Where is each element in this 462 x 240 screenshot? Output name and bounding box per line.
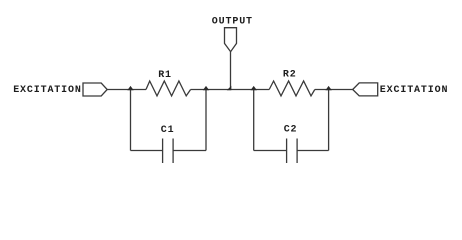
capacitor C2 left plate xyxy=(286,139,288,164)
junction node A xyxy=(127,86,133,90)
wire: node A down (C1 left lead) xyxy=(130,90,132,151)
wire: C1 bottom left horizontal xyxy=(131,150,163,152)
resistor R1 xyxy=(146,81,191,96)
wire: C2 bottom left horizontal xyxy=(254,150,287,152)
svg-text:EXCITATION: EXCITATION xyxy=(380,85,449,96)
junction node B xyxy=(203,86,209,90)
junction node D xyxy=(325,86,331,90)
svg-text:EXCITATION: EXCITATION xyxy=(13,85,82,96)
capacitor C1 right plate xyxy=(172,139,174,164)
port OUTPUT connector symbol xyxy=(225,28,237,52)
wire: C1 bottom right horizontal xyxy=(173,150,206,152)
junction node C xyxy=(251,86,257,90)
svg-text:C1: C1 xyxy=(161,125,175,136)
port EXCITATION right connector symbol xyxy=(353,83,378,96)
resistor R2 xyxy=(269,81,315,96)
wire: R2 right to right port xyxy=(315,89,353,91)
wire: node C down (C2 left lead) xyxy=(253,90,255,151)
wire: C2 bottom right horizontal xyxy=(297,150,329,152)
capacitor C1 left plate xyxy=(162,139,164,164)
wire: left port to node A xyxy=(107,89,146,91)
svg-text:R1: R1 xyxy=(158,70,172,81)
capacitor C2 right plate xyxy=(296,139,298,164)
svg-text:OUTPUT: OUTPUT xyxy=(212,16,253,27)
wire: C1 right lead up to node B xyxy=(205,90,207,151)
port EXCITATION left connector symbol xyxy=(83,83,107,96)
junction node OUT xyxy=(227,86,232,91)
wire: C2 right lead up to node D xyxy=(328,90,330,151)
svg-text:C2: C2 xyxy=(284,125,298,136)
wire: OUTPUT port down to center node xyxy=(230,52,232,90)
svg-text:R2: R2 xyxy=(283,69,297,80)
wire: R1 right to R2 left (through nodes B and OUT) xyxy=(191,89,270,91)
